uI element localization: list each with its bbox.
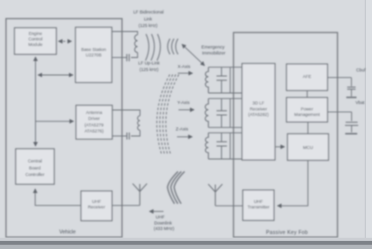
- antenna key fob: [208, 184, 222, 206]
- svg-text:LF Bidirectional: LF Bidirectional: [133, 10, 163, 15]
- svg-text:Y-Axis: Y-Axis: [177, 100, 190, 105]
- wire power management to MCU: [307, 122, 309, 134]
- wire base station coil top: [112, 32, 138, 35]
- block central board controller: [16, 149, 55, 184]
- svg-text:Board: Board: [29, 166, 41, 171]
- block 3D LF receiver ATA5282: [242, 64, 275, 161]
- svg-text:UHF: UHF: [254, 199, 263, 204]
- waves LF bidirectional: [146, 34, 149, 61]
- waves key side: [168, 39, 170, 55]
- svg-text:Central: Central: [28, 159, 42, 164]
- vehicle outer box: [6, 19, 122, 238]
- svg-text:AFE: AFE: [303, 74, 312, 79]
- wire AFE to power management: [306, 91, 308, 98]
- wire tank top: [208, 98, 242, 100]
- passive key fob outer box: [234, 33, 338, 238]
- svg-text:Receiver: Receiver: [250, 106, 268, 111]
- waves dashed LF up-link: [157, 75, 170, 155]
- svg-text:(433 MHz): (433 MHz): [154, 226, 175, 231]
- wire bus to base station: [38, 74, 73, 76]
- bottom dark band: [0, 241, 372, 245]
- svg-text:(125 kHz): (125 kHz): [139, 67, 159, 72]
- svg-text:Receiver: Receiver: [88, 204, 106, 209]
- capacitor Y: [221, 99, 223, 128]
- svg-text:Downlink: Downlink: [154, 220, 173, 225]
- tank Z-axis: [205, 133, 242, 159]
- svg-text:Link: Link: [144, 16, 153, 21]
- ground Cbuf: [346, 96, 356, 98]
- inductor LF antenna coil: [138, 116, 140, 130]
- wire tank right: [229, 99, 231, 128]
- ground Vbat: [345, 133, 357, 135]
- arrow Z-axis: [177, 136, 192, 138]
- svg-text:Management: Management: [294, 112, 320, 117]
- inductor Y coil: [205, 99, 208, 128]
- arrow emergency immobilizer: [182, 44, 205, 65]
- block UHF receiver: [81, 191, 112, 221]
- svg-text:Power: Power: [301, 106, 314, 111]
- svg-text:U2270B: U2270B: [86, 53, 102, 58]
- svg-text:MCU: MCU: [303, 145, 313, 150]
- right margin light strip: [366, 0, 372, 238]
- svg-text:Base Station: Base Station: [81, 47, 106, 52]
- wire dashed ECM to base station: [59, 40, 72, 42]
- wire MCU to UHF transmitter: [278, 160, 308, 206]
- wire tank bottom: [208, 92, 242, 94]
- wire tank top: [208, 66, 242, 68]
- svg-text:Passive Key Fob: Passive Key Fob: [266, 230, 308, 236]
- bottom gray band: [0, 245, 372, 249]
- wire bus ECM to CBC: [35, 57, 37, 146]
- wire tank top: [208, 132, 242, 134]
- svg-text:(ATA5282): (ATA5282): [248, 112, 269, 117]
- block ECM: [15, 28, 57, 55]
- bottom transition band: [0, 238, 372, 241]
- svg-text:X-Axis: X-Axis: [178, 64, 191, 69]
- wire 3D receiver to MCU: [275, 146, 285, 148]
- inductor Z coil: [205, 133, 208, 159]
- wire UHF receiver to CBC: [35, 189, 81, 205]
- wire UHF transmitter to antenna: [215, 205, 243, 207]
- wire power management to Vbat: [328, 111, 352, 113]
- svg-text:(ATA5279: (ATA5279: [84, 122, 104, 127]
- waves UHF downlink: [168, 172, 179, 204]
- block antenna driver ATA5279: [76, 105, 112, 139]
- wire AFE to Cbuf: [328, 77, 352, 79]
- wire base station cap: [112, 57, 127, 59]
- capacitor antenna driver: [127, 133, 129, 140]
- arrow Y-axis: [179, 109, 195, 111]
- wire bus to antenna driver: [36, 120, 74, 122]
- svg-text:UHF: UHF: [156, 215, 165, 220]
- svg-text:Z-Axis: Z-Axis: [176, 127, 189, 132]
- block MCU: [288, 134, 329, 161]
- wire antenna driver coil top: [112, 110, 140, 116]
- svg-text:Engine: Engine: [29, 31, 43, 36]
- svg-text:Controller: Controller: [25, 172, 45, 177]
- svg-text:Cbuf: Cbuf: [356, 67, 366, 72]
- capacitor base station: [127, 54, 129, 61]
- tank Y-axis: [205, 99, 242, 128]
- svg-text:Antenna: Antenna: [86, 110, 103, 115]
- svg-text:Vbat: Vbat: [355, 100, 365, 105]
- svg-text:Module: Module: [28, 42, 43, 47]
- battery Vbat: [345, 112, 358, 134]
- wire coil to cap: [131, 130, 140, 136]
- svg-text:Immobilizer: Immobilizer: [202, 50, 226, 55]
- svg-text:(125 kHz): (125 kHz): [138, 23, 158, 28]
- svg-text:ATA5276): ATA5276): [84, 128, 104, 133]
- wire tank bottom: [208, 126, 242, 128]
- antenna vehicle: [133, 184, 147, 206]
- wire cap to antenna driver: [112, 135, 127, 137]
- svg-text:Emergency: Emergency: [201, 44, 225, 49]
- svg-text:Transmitter: Transmitter: [247, 205, 270, 210]
- capacitor X: [221, 67, 223, 93]
- capacitor Z: [221, 133, 223, 159]
- svg-text:UHF: UHF: [92, 199, 101, 204]
- block power management: [287, 98, 328, 123]
- arrow X-axis: [178, 72, 193, 74]
- wire coil bottom: [131, 53, 138, 58]
- inductor immobilizer coil: [135, 35, 138, 53]
- wire tank right: [229, 133, 231, 159]
- capacitor Cbuf: [346, 78, 356, 98]
- right frame line: [365, 0, 366, 238]
- block base station U2270B: [76, 27, 112, 82]
- inductor X coil: [205, 67, 208, 93]
- wire tank right: [229, 67, 231, 93]
- svg-text:3D LF: 3D LF: [252, 101, 264, 106]
- block AFE: [287, 64, 328, 91]
- wire tank bottom: [208, 158, 242, 160]
- arrow UHF downlink: [150, 210, 164, 212]
- tank X-axis: [205, 67, 242, 93]
- svg-text:Control: Control: [28, 37, 42, 42]
- svg-text:LF Up-Link: LF Up-Link: [138, 60, 160, 65]
- svg-text:Driver: Driver: [88, 116, 100, 121]
- block UHF transmitter: [243, 190, 274, 220]
- wire UHF receiver to antenna: [112, 204, 140, 206]
- svg-text:Vehicle: Vehicle: [59, 229, 76, 235]
